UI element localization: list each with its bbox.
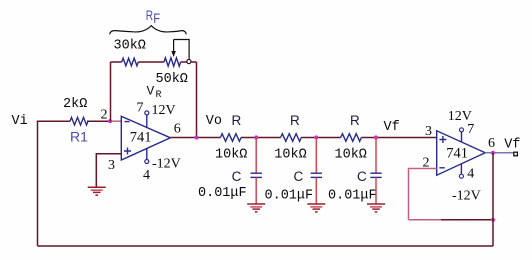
op-amp U2 741 triangle (437, 131, 486, 175)
wire output rail down (492, 153, 494, 246)
ground G3 (307, 204, 325, 212)
wire R3 to node Vf (361, 137, 436, 139)
junction C3 (374, 135, 378, 139)
terminal circle pot right end (187, 59, 191, 63)
svg-text:12V: 12V (448, 109, 472, 124)
wire R1 to node 2 (87, 120, 110, 122)
pin 4 stub U1 (146, 149, 148, 160)
svg-text:R: R (156, 90, 162, 101)
svg-text:10kΩ: 10kΩ (335, 147, 367, 162)
svg-text:R1: R1 (70, 129, 88, 145)
svg-text:0.01μF: 0.01μF (198, 186, 247, 201)
ground G1 (88, 187, 106, 195)
resistor R 10k first zigzag (220, 134, 241, 142)
resistor R 10k third zigzag (341, 134, 362, 142)
wire C1 bottom (255, 177, 257, 204)
svg-text:3: 3 (108, 158, 115, 173)
wire R2 to C2 node (301, 137, 340, 139)
wire between 30k and pot (138, 61, 164, 63)
wire C2 top (315, 138, 317, 174)
svg-text:50kΩ: 50kΩ (156, 72, 188, 87)
wire C3 bottom (375, 177, 377, 204)
svg-text:10kΩ: 10kΩ (274, 147, 306, 162)
svg-text:4: 4 (143, 168, 150, 183)
svg-text:R: R (146, 7, 153, 23)
potentiometer 50k zigzag (164, 58, 181, 66)
op-amp U1 plus sign (124, 148, 131, 155)
svg-text:6: 6 (174, 122, 181, 137)
brace under RF (110, 26, 187, 35)
svg-text:-12V: -12V (452, 189, 481, 204)
svg-text:741: 741 (130, 129, 152, 145)
pin 7 circle U2 (460, 128, 464, 132)
svg-text:2kΩ: 2kΩ (63, 97, 87, 112)
svg-text:7: 7 (137, 101, 144, 116)
wire node 2 to op-amp pin 2 (110, 120, 121, 122)
wire Vi to R1 (37, 120, 70, 122)
capacitor C1 plates (251, 173, 262, 177)
svg-text:0.01μF: 0.01μF (328, 188, 377, 203)
pot wiper arrowhead (171, 51, 176, 57)
ground G4 (367, 204, 385, 212)
resistor R 10k second zigzag (281, 134, 302, 142)
junction C1 (254, 135, 258, 139)
svg-text:30kΩ: 30kΩ (114, 39, 146, 54)
wire feedback right vertical down to output (196, 62, 198, 138)
wire C3 top (375, 138, 377, 174)
wire U2 output (485, 152, 513, 154)
svg-text:Vf: Vf (384, 120, 400, 135)
svg-text:0.01μF: 0.01μF (265, 188, 314, 203)
svg-text:C: C (357, 169, 367, 184)
svg-text:R: R (290, 113, 300, 128)
wire left vertical from Vi down to bottom feedback (37, 121, 39, 246)
capacitor C3 plates (370, 173, 381, 177)
pot wiper wire to terminal (174, 40, 190, 59)
wire feedback top left (111, 61, 122, 63)
svg-text:C: C (232, 169, 242, 184)
wire C2 bottom (315, 177, 317, 204)
svg-text:7: 7 (467, 122, 474, 137)
svg-text:3: 3 (425, 124, 432, 139)
terminal square Vf output (514, 152, 518, 156)
svg-text:4: 4 (467, 167, 474, 182)
wire R to C1 node (241, 137, 281, 139)
wire U1 output to feedback junction (170, 137, 220, 139)
svg-text:Vi: Vi (12, 114, 28, 129)
junction U2 output (491, 151, 495, 155)
svg-text:10kΩ: 10kΩ (215, 147, 247, 162)
capacitor C2 plates (311, 173, 322, 177)
wire pot to terminal circle (181, 61, 187, 63)
junction output node Vo (194, 135, 198, 139)
svg-text:Vo: Vo (206, 114, 222, 129)
junction node 2 (108, 119, 112, 123)
pin 7 stub U2 (461, 132, 463, 142)
svg-text:6: 6 (488, 136, 495, 151)
pot wiper arrow stem (173, 40, 175, 52)
op-amp U1 741 triangle (121, 116, 170, 160)
pin 7 circle U1 (145, 111, 149, 115)
pin 4 stub U2 (460, 164, 462, 174)
svg-text:12V: 12V (152, 103, 176, 118)
svg-text:-12V: -12V (152, 157, 181, 172)
svg-text:2: 2 (101, 108, 108, 123)
pin 4 circle U2 (459, 174, 463, 178)
svg-text:V: V (147, 84, 155, 99)
svg-text:R: R (232, 113, 242, 128)
wire terminal to corner (191, 61, 197, 63)
svg-text:741: 741 (446, 146, 468, 162)
wire feedback bottom to output rail (409, 219, 442, 221)
op-amp U2 minus sign (439, 167, 444, 169)
wire pin 2 U2 feedback (409, 169, 437, 220)
svg-text:F: F (153, 11, 160, 26)
pin 4 circle U1 (145, 160, 149, 164)
wire vertical node2 up to feedback (110, 62, 112, 121)
ground G2 (247, 204, 265, 212)
resistor R1 2k zigzag (70, 117, 88, 125)
pin 7 stub U1 (146, 115, 148, 127)
junction feedback rail (491, 218, 495, 222)
svg-text:Vf: Vf (504, 138, 520, 153)
wire pin 3 U1 to ground corner (96, 154, 121, 188)
wire bottom feedback Vf to Vi (38, 245, 494, 247)
wire C1 top (255, 138, 257, 174)
svg-text:R: R (350, 113, 360, 128)
junction C2 (314, 135, 318, 139)
resistor RF 30k zigzag (122, 58, 139, 66)
svg-text:C: C (294, 169, 304, 184)
op-amp U1 minus sign (125, 121, 130, 123)
op-amp U2 plus sign (439, 136, 446, 143)
